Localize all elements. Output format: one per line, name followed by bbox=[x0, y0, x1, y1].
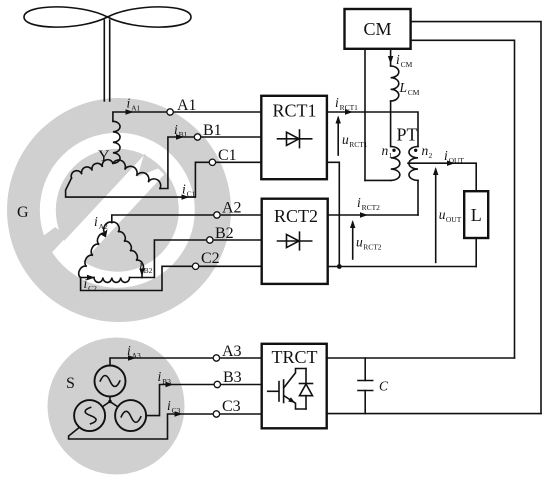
TRCT diode bbox=[305, 369, 307, 410]
generator watermark disc bbox=[7, 98, 231, 322]
svg-text:u: u bbox=[439, 207, 446, 222]
wire RCT1 negative bbox=[327, 162, 339, 266]
wire iRCT2 bbox=[328, 214, 418, 216]
terminal C2 bbox=[192, 263, 198, 269]
delta winding phase B coil bbox=[112, 222, 144, 270]
delta winding phase C coil bbox=[94, 278, 130, 283]
wire B3 bbox=[146, 385, 262, 416]
load L bbox=[464, 191, 488, 238]
svg-text:CM: CM bbox=[401, 60, 413, 69]
wire CM right top bbox=[411, 22, 541, 414]
terminal B1 bbox=[194, 134, 200, 140]
wire C3 bbox=[69, 414, 262, 439]
terminal A1 bbox=[167, 109, 173, 115]
delta winding phase A coil bbox=[79, 222, 112, 277]
wire LCM to PT bbox=[390, 101, 392, 147]
RCT2 diode bbox=[278, 240, 312, 242]
PT secondary bottom wire bbox=[417, 180, 419, 215]
svg-text:RCT1: RCT1 bbox=[272, 101, 316, 121]
junction dot bbox=[337, 264, 342, 269]
uRCT2 arrow bbox=[352, 223, 354, 260]
svg-text:RCT2: RCT2 bbox=[274, 206, 318, 226]
Y winding phase A coil bbox=[113, 121, 120, 163]
svg-text:C: C bbox=[379, 379, 389, 394]
wire negative rail bbox=[328, 266, 477, 268]
watermark slash bbox=[61, 155, 165, 263]
svg-text:i: i bbox=[84, 276, 88, 291]
svg-text:A3: A3 bbox=[222, 343, 242, 360]
wire C2 stub bbox=[81, 277, 94, 279]
svg-text:i: i bbox=[127, 343, 131, 358]
svg-text:B3: B3 bbox=[223, 369, 242, 386]
svg-text:Y: Y bbox=[98, 148, 110, 165]
wire iRCT1 rail bbox=[327, 112, 418, 147]
svg-text:i: i bbox=[335, 95, 339, 110]
wire TRCT bottom out bbox=[327, 413, 541, 415]
wire B1 bbox=[160, 137, 261, 189]
wire iB2 drop bbox=[141, 270, 143, 278]
svg-text:CM: CM bbox=[363, 19, 391, 39]
inductor LCM bbox=[391, 66, 399, 101]
svg-text:RCT2: RCT2 bbox=[362, 203, 381, 212]
wire A2 bbox=[112, 215, 262, 223]
wire B2 riser bbox=[130, 240, 262, 278]
svg-text:L: L bbox=[399, 80, 408, 95]
wire iOUT bbox=[408, 163, 476, 191]
svg-text:S: S bbox=[66, 375, 75, 392]
svg-text:RCT1: RCT1 bbox=[340, 103, 359, 112]
svg-text:C1: C1 bbox=[218, 147, 237, 164]
svg-text:A2: A2 bbox=[222, 200, 242, 217]
Y winding phase C coil bbox=[71, 160, 113, 178]
wire CM right second bbox=[411, 40, 515, 358]
source watermark disc bbox=[48, 338, 185, 475]
svg-text:i: i bbox=[139, 258, 143, 273]
svg-text:A2: A2 bbox=[99, 222, 108, 231]
PT primary bottom wire bbox=[365, 179, 391, 181]
svg-text:i: i bbox=[94, 214, 98, 229]
svg-text:TRCT: TRCT bbox=[271, 347, 317, 367]
rectifier RCT1 bbox=[261, 96, 327, 179]
svg-text:OUT: OUT bbox=[449, 156, 465, 165]
svg-text:C3: C3 bbox=[172, 406, 181, 415]
svg-text:B3: B3 bbox=[162, 377, 171, 386]
RCT1 diode bbox=[278, 138, 312, 140]
svg-text:L: L bbox=[471, 205, 482, 225]
wire CM left drop bbox=[364, 49, 366, 181]
source phase C bbox=[115, 400, 146, 431]
arrow iA2 bbox=[101, 229, 107, 237]
svg-text:A1: A1 bbox=[177, 97, 197, 114]
svg-text:RCT1: RCT1 bbox=[349, 140, 368, 149]
arrow iC2 bbox=[87, 275, 95, 280]
svg-text:n: n bbox=[422, 143, 429, 158]
source phase B bbox=[74, 400, 105, 431]
turbine shaft bbox=[104, 20, 109, 101]
svg-text:u: u bbox=[342, 132, 349, 147]
svg-text:i: i bbox=[444, 148, 448, 163]
svg-text:i: i bbox=[167, 398, 171, 413]
svg-text:2: 2 bbox=[429, 151, 433, 160]
polarity dot n2 bbox=[414, 149, 417, 152]
svg-text:i: i bbox=[174, 122, 178, 137]
wire A1 bbox=[113, 112, 261, 121]
svg-text:C2: C2 bbox=[88, 284, 97, 293]
svg-text:A1: A1 bbox=[131, 104, 140, 113]
svg-text:PT: PT bbox=[396, 125, 417, 145]
svg-text:i: i bbox=[127, 96, 131, 111]
watermark ring bbox=[48, 141, 187, 280]
wire C2 bbox=[81, 266, 262, 290]
wire CM to LCM bbox=[390, 49, 392, 66]
terminal A2 bbox=[214, 212, 220, 218]
svg-text:B1: B1 bbox=[179, 130, 188, 139]
wind turbine blades bbox=[24, 7, 191, 27]
svg-text:i: i bbox=[158, 369, 162, 384]
TRCT IGBT bbox=[268, 390, 278, 392]
terminal C1 bbox=[209, 159, 215, 165]
svg-text:i: i bbox=[396, 52, 400, 67]
PT secondary winding bbox=[409, 147, 418, 181]
transistor rectifier TRCT bbox=[262, 344, 327, 429]
block CM bbox=[345, 9, 411, 49]
uOUT arrow bbox=[435, 170, 437, 263]
terminal A3 bbox=[213, 355, 219, 361]
svg-text:B2: B2 bbox=[144, 266, 153, 275]
svg-text:1: 1 bbox=[389, 151, 393, 160]
svg-text:C1: C1 bbox=[187, 190, 196, 199]
svg-text:B1: B1 bbox=[203, 122, 222, 139]
PT primary winding bbox=[391, 147, 400, 181]
terminal C3 bbox=[213, 411, 219, 417]
arrow iB2 bbox=[139, 269, 144, 277]
terminal B3 bbox=[214, 381, 220, 387]
svg-text:C3: C3 bbox=[222, 398, 241, 415]
polarity dot n1 bbox=[392, 149, 395, 152]
svg-text:OUT: OUT bbox=[446, 215, 462, 224]
svg-text:B2: B2 bbox=[215, 225, 234, 242]
svg-text:n: n bbox=[382, 143, 389, 158]
svg-text:CM: CM bbox=[408, 88, 420, 97]
svg-text:A3: A3 bbox=[132, 351, 141, 360]
source phase A bbox=[95, 366, 126, 397]
svg-text:i: i bbox=[357, 195, 361, 210]
source star dot bbox=[108, 400, 112, 404]
terminal B2 bbox=[207, 237, 213, 243]
svg-text:C2: C2 bbox=[201, 250, 220, 267]
svg-text:i: i bbox=[182, 182, 186, 197]
rectifier RCT2 bbox=[262, 199, 328, 284]
source star links bbox=[90, 381, 131, 416]
svg-text:G: G bbox=[17, 204, 29, 221]
wire L bottom bbox=[475, 238, 477, 267]
svg-text:RCT2: RCT2 bbox=[363, 243, 382, 252]
wire A3 bbox=[110, 358, 262, 366]
capacitor C bbox=[364, 358, 366, 414]
Y winding phase B coil bbox=[113, 160, 161, 189]
svg-text:u: u bbox=[356, 235, 363, 250]
wire C1 bbox=[66, 162, 262, 197]
uRCT1 arrow bbox=[337, 118, 339, 155]
wire TRCT top out bbox=[327, 357, 515, 359]
